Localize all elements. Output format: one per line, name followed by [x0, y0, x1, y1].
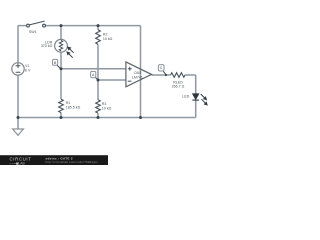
svg-text:370 kΩ: 370 kΩ — [41, 44, 53, 48]
svg-text:http://circuitlab.com/cxdc/799: http://circuitlab.com/cxdc/799dwjcs — [46, 160, 99, 164]
wire top rail left segment — [18, 26, 196, 129]
op-amp U1 OA5 LM741 — [126, 62, 152, 87]
svg-text:R2: R2 — [103, 32, 108, 36]
wire op-amp output — [152, 74, 171, 76]
node A — [91, 71, 98, 80]
resistor RLED — [171, 73, 185, 78]
wire node B to op-amp + input — [61, 68, 126, 70]
resistor R2 — [96, 30, 101, 45]
svg-text:C: C — [160, 66, 163, 70]
wire LED cathode lead — [195, 100, 197, 117]
wire R1 column — [60, 69, 62, 100]
wire LDR top lead — [60, 26, 62, 40]
svg-text:V1: V1 — [25, 64, 29, 68]
LED emission arrow 2 — [201, 99, 207, 105]
svg-text:266.7 Ω: 266.7 Ω — [172, 85, 185, 89]
LDR photoresistor — [55, 39, 74, 57]
resistor R3 — [96, 100, 101, 113]
svg-text:∼∼▪◼LAB: ∼∼▪◼LAB — [9, 161, 25, 165]
wire ground stub — [17, 118, 19, 130]
junction node dots — [17, 24, 168, 119]
wire left rail lower — [17, 75, 19, 117]
wire R2 top lead — [97, 26, 99, 30]
wire node A to op-amp - input — [98, 79, 126, 81]
wire RLED to corner — [185, 74, 196, 76]
svg-text:R3: R3 — [102, 102, 107, 106]
watermark bar — [0, 155, 108, 165]
wire R3 bottom lead — [97, 113, 99, 117]
LDR light arrow 1 — [68, 47, 74, 53]
wire R1 bottom lead — [60, 113, 62, 118]
node B — [53, 59, 61, 68]
resistor R1 — [59, 99, 64, 112]
svg-text:10 kΩ: 10 kΩ — [103, 37, 113, 41]
wire top rail right of switch — [44, 25, 141, 27]
svg-text:185.5 kΩ: 185.5 kΩ — [66, 106, 81, 110]
LED diode — [192, 94, 207, 105]
svg-text:LM741: LM741 — [132, 76, 143, 80]
wire left rail upper — [17, 26, 19, 63]
svg-text:OA5: OA5 — [134, 71, 141, 75]
wire op-amp supply column — [140, 26, 142, 118]
svg-text:6 V: 6 V — [25, 69, 31, 73]
svg-text:10 kΩ: 10 kΩ — [102, 107, 112, 111]
wire bottom rail — [18, 117, 196, 119]
node C — [158, 65, 166, 75]
wire R2 bottom to R3 top — [97, 44, 99, 99]
svg-text:R1: R1 — [66, 101, 71, 105]
svg-text:LED: LED — [182, 94, 189, 98]
LDR light arrow 2 — [67, 52, 73, 58]
LED emission arrow 1 — [201, 94, 207, 100]
wire LDR bottom lead — [60, 52, 62, 68]
wire LED anode lead — [195, 75, 197, 94]
voltage source V1 — [12, 63, 24, 75]
ground — [13, 129, 24, 135]
switch SW1 — [27, 21, 46, 27]
svg-text:SW1: SW1 — [29, 30, 37, 34]
